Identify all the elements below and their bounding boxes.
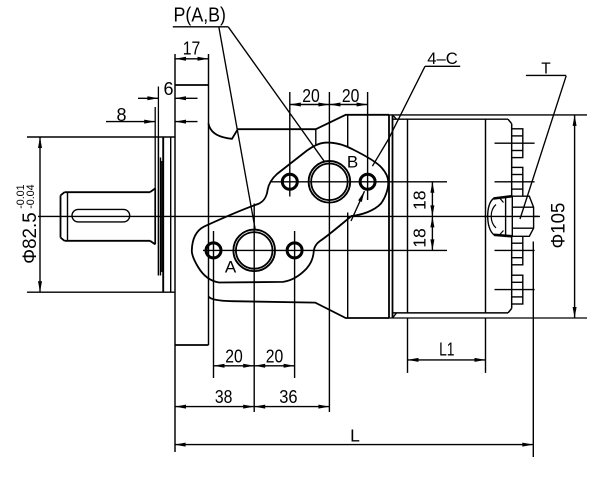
svg-text:20: 20 [225,346,243,366]
end cap [508,119,512,313]
bolt hole B right (4-C) [360,174,375,189]
port B outer [309,161,351,203]
dim 20 top right [329,104,367,106]
dim 6 [157,87,159,138]
svg-text:L: L [350,426,360,446]
svg-text:B: B [347,152,358,171]
cap bolt 2 [512,167,523,196]
shaft shoulder [154,188,156,244]
dim 36 [254,406,329,408]
svg-text:8: 8 [116,105,126,125]
dim L extension right [532,242,534,458]
dim dia105 [574,115,576,318]
svg-text:20: 20 [302,86,320,106]
housing joint line [347,115,349,147]
drain plug T [488,196,534,236]
bolt hole A right [287,243,302,258]
svg-text:P(A,B): P(A,B) [174,5,227,27]
dim 20 top left [290,104,330,106]
svg-text:18: 18 [409,228,429,248]
centerline bolt A left vertical [213,231,215,378]
dim 38 [175,406,254,408]
leader 4-C arrow [351,191,365,221]
body step at boss [315,129,317,144]
pilot bottom edge + extension [27,291,175,293]
dim 17 [175,58,209,60]
svg-text:18: 18 [409,190,429,210]
svg-text:Φ105: Φ105 [548,203,569,249]
dim L1 [408,359,486,361]
dim 20 bottom left [214,365,255,367]
body outline bottom [209,297,390,319]
svg-text:Φ82.5: Φ82.5 [20,212,41,264]
leader 4-C [372,66,425,166]
dim dia82.5 [39,137,41,292]
svg-text:17: 17 [183,39,201,59]
dim 20 bottom right [254,365,294,367]
dim L1 extension left [407,318,409,373]
port A inner [236,232,273,269]
bolt hole B left [282,174,297,189]
dim L1 extension right [485,318,487,373]
port A outer [233,230,275,272]
svg-text:38: 38 [215,387,233,407]
svg-text:L1: L1 [439,339,454,359]
svg-text:20: 20 [266,346,284,366]
centerline bolt B left vertical [289,92,291,197]
bolt hole A left [206,243,221,258]
cap bolt 3 [512,236,523,265]
leader T [520,76,566,219]
leader P to B [228,27,324,162]
svg-text:-0.04: -0.04 [25,184,37,208]
centerline port B vertical [328,92,330,412]
cap bolt 4 [512,275,523,304]
centerline port A vertical [253,204,255,413]
centerline bolt B right vertical [367,92,369,200]
port B inner [311,164,348,201]
svg-text:A: A [225,258,237,277]
seal housing line [157,137,159,276]
flange plate [175,54,209,452]
centerline through plug [484,215,538,217]
centerline port B horizontal [270,181,447,183]
dim 18 upper [431,182,433,217]
shaft [61,188,156,244]
pilot top edge + dia82.5 extension [27,136,175,138]
svg-text:36: 36 [279,387,297,407]
rear shell [389,115,587,318]
main centerline [38,215,540,217]
leader P to A [219,27,256,231]
body outline top [209,115,390,139]
keyway [72,209,130,222]
centerline port A horizontal [203,249,447,251]
dim L [175,444,534,446]
pilot front face [162,137,164,292]
port pad outline [192,143,389,283]
svg-text:4–C: 4–C [427,49,458,68]
svg-text:6: 6 [163,79,173,99]
cap bolt 1 [512,129,523,158]
centerline cap bolt stubs [495,142,535,144]
svg-text:20: 20 [342,86,360,106]
dim 18 lower [431,216,433,250]
dim 8 [154,107,156,188]
centerline bolt A right vertical [294,231,296,378]
